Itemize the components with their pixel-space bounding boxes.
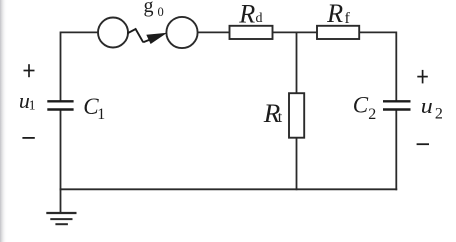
svg-text:R: R [238,0,255,29]
capacitor C2 [383,101,411,109]
polarity minus right [417,143,429,145]
scan shadow left edge [0,0,7,242]
spark gap g0 left electrode circle [98,18,128,48]
resistor Rd [230,26,273,39]
wire top-right: Rf to corner down to C2 [359,32,396,101]
spark gap g0 right electrode circle [166,17,197,48]
svg-text:R: R [326,0,343,28]
polarity minus left [22,137,34,139]
wire middle branch lower: Rt to bottom [296,138,298,190]
svg-text:C: C [353,93,369,118]
wire bottom [61,188,397,190]
svg-text:2: 2 [368,106,376,123]
switch zigzag lead [127,29,143,42]
svg-text:t: t [278,109,283,126]
svg-text:2: 2 [435,106,443,123]
capacitor C1 [47,101,73,109]
wire top: right circle to Rd [198,31,230,33]
svg-text:1: 1 [29,98,36,113]
svg-text:d: d [256,11,263,26]
resistor Rt [289,93,304,138]
polarity plus right [417,70,428,84]
ground [46,213,76,224]
svg-text:f: f [345,10,351,27]
switch arrow head [146,33,167,44]
wire right lower: C2 to bottom [395,110,397,190]
wire left lower: C1 to bottom [60,110,62,190]
wire middle branch upper: node to Rt [296,32,298,93]
svg-text:g: g [144,0,154,17]
wire ground stub [60,189,62,213]
svg-text:1: 1 [97,106,105,123]
resistor Rf [317,26,359,39]
svg-text:u: u [421,93,433,118]
switch arrow shaft [143,39,151,42]
wire top: Rd to Rf (through node) [273,31,318,33]
polarity plus left [24,64,35,77]
svg-text:0: 0 [158,5,164,19]
wire top-left: corner to switch circle [61,32,99,101]
